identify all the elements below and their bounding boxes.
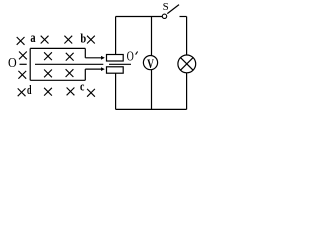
wire from bottom plate down to circuit bottom-left corner [115, 73, 117, 109]
field cross bottom row 1 [18, 88, 26, 96]
circuit top wire to switch [116, 16, 163, 18]
wire from top plate up to circuit top-left corner [115, 17, 117, 55]
coil abcd left edge (ad side) [29, 48, 31, 80]
coil bottom edge (dc side) [30, 79, 85, 81]
svg-text:O: O [127, 50, 134, 65]
lamp cross diagonal 2 [181, 58, 194, 71]
bottom lead wire to bottom slip ring [85, 68, 102, 70]
field cross inside bottom-right [66, 69, 74, 77]
arrowhead of bottom lead [101, 67, 105, 71]
top lead wire to top slip ring [85, 57, 102, 59]
field cross top row 4 [87, 36, 95, 44]
circuit right edge below lamp [186, 73, 188, 110]
field cross top row 1 [17, 37, 25, 45]
circuit bottom wire [116, 108, 187, 110]
lamp cross diagonal 1 [181, 58, 194, 71]
bottom slip ring plate [107, 67, 124, 73]
lamp circle [178, 55, 196, 73]
field cross inside top-left [44, 52, 52, 60]
field cross bottom row 3 [67, 88, 75, 96]
axis OO' segment between slip rings [109, 63, 131, 65]
field cross top row 2 [41, 36, 49, 44]
field cross bottom row 2 [44, 88, 52, 96]
axis OO' main segment through coil [35, 63, 103, 65]
wire from switch to top-right corner [180, 16, 187, 18]
field cross top row 3 [64, 36, 72, 44]
svg-text:b: b [80, 31, 86, 46]
field × symbols [17, 36, 95, 97]
svg-text:O: O [8, 56, 17, 71]
circuit right edge above lamp [186, 17, 188, 56]
coil right step at b down to top lead [84, 48, 86, 57]
switch S blade [167, 5, 179, 14]
field cross bottom row 4 [87, 89, 95, 97]
field cross left col upper [19, 52, 27, 60]
voltmeter branch upper wire [151, 17, 153, 56]
switch S contact circle [162, 14, 166, 18]
svg-text:V: V [147, 57, 154, 71]
svg-text:d: d [27, 82, 32, 97]
field cross inside bottom-left [44, 70, 52, 78]
coil right step at c up to bottom lead [84, 69, 86, 80]
arrowhead of top lead [101, 56, 105, 60]
voltmeter V circle [143, 56, 157, 70]
voltmeter branch lower wire [151, 69, 153, 109]
prime tick of O′ [136, 52, 138, 55]
field cross inside top-right [66, 53, 74, 61]
coil top edge (ab side) [30, 47, 85, 49]
svg-text:c: c [80, 79, 85, 94]
axis OO' dash near O [20, 63, 27, 65]
field cross left col lower [18, 71, 26, 79]
svg-text:S: S [163, 1, 169, 13]
svg-text:a: a [30, 31, 35, 46]
top slip ring plate [107, 55, 124, 62]
